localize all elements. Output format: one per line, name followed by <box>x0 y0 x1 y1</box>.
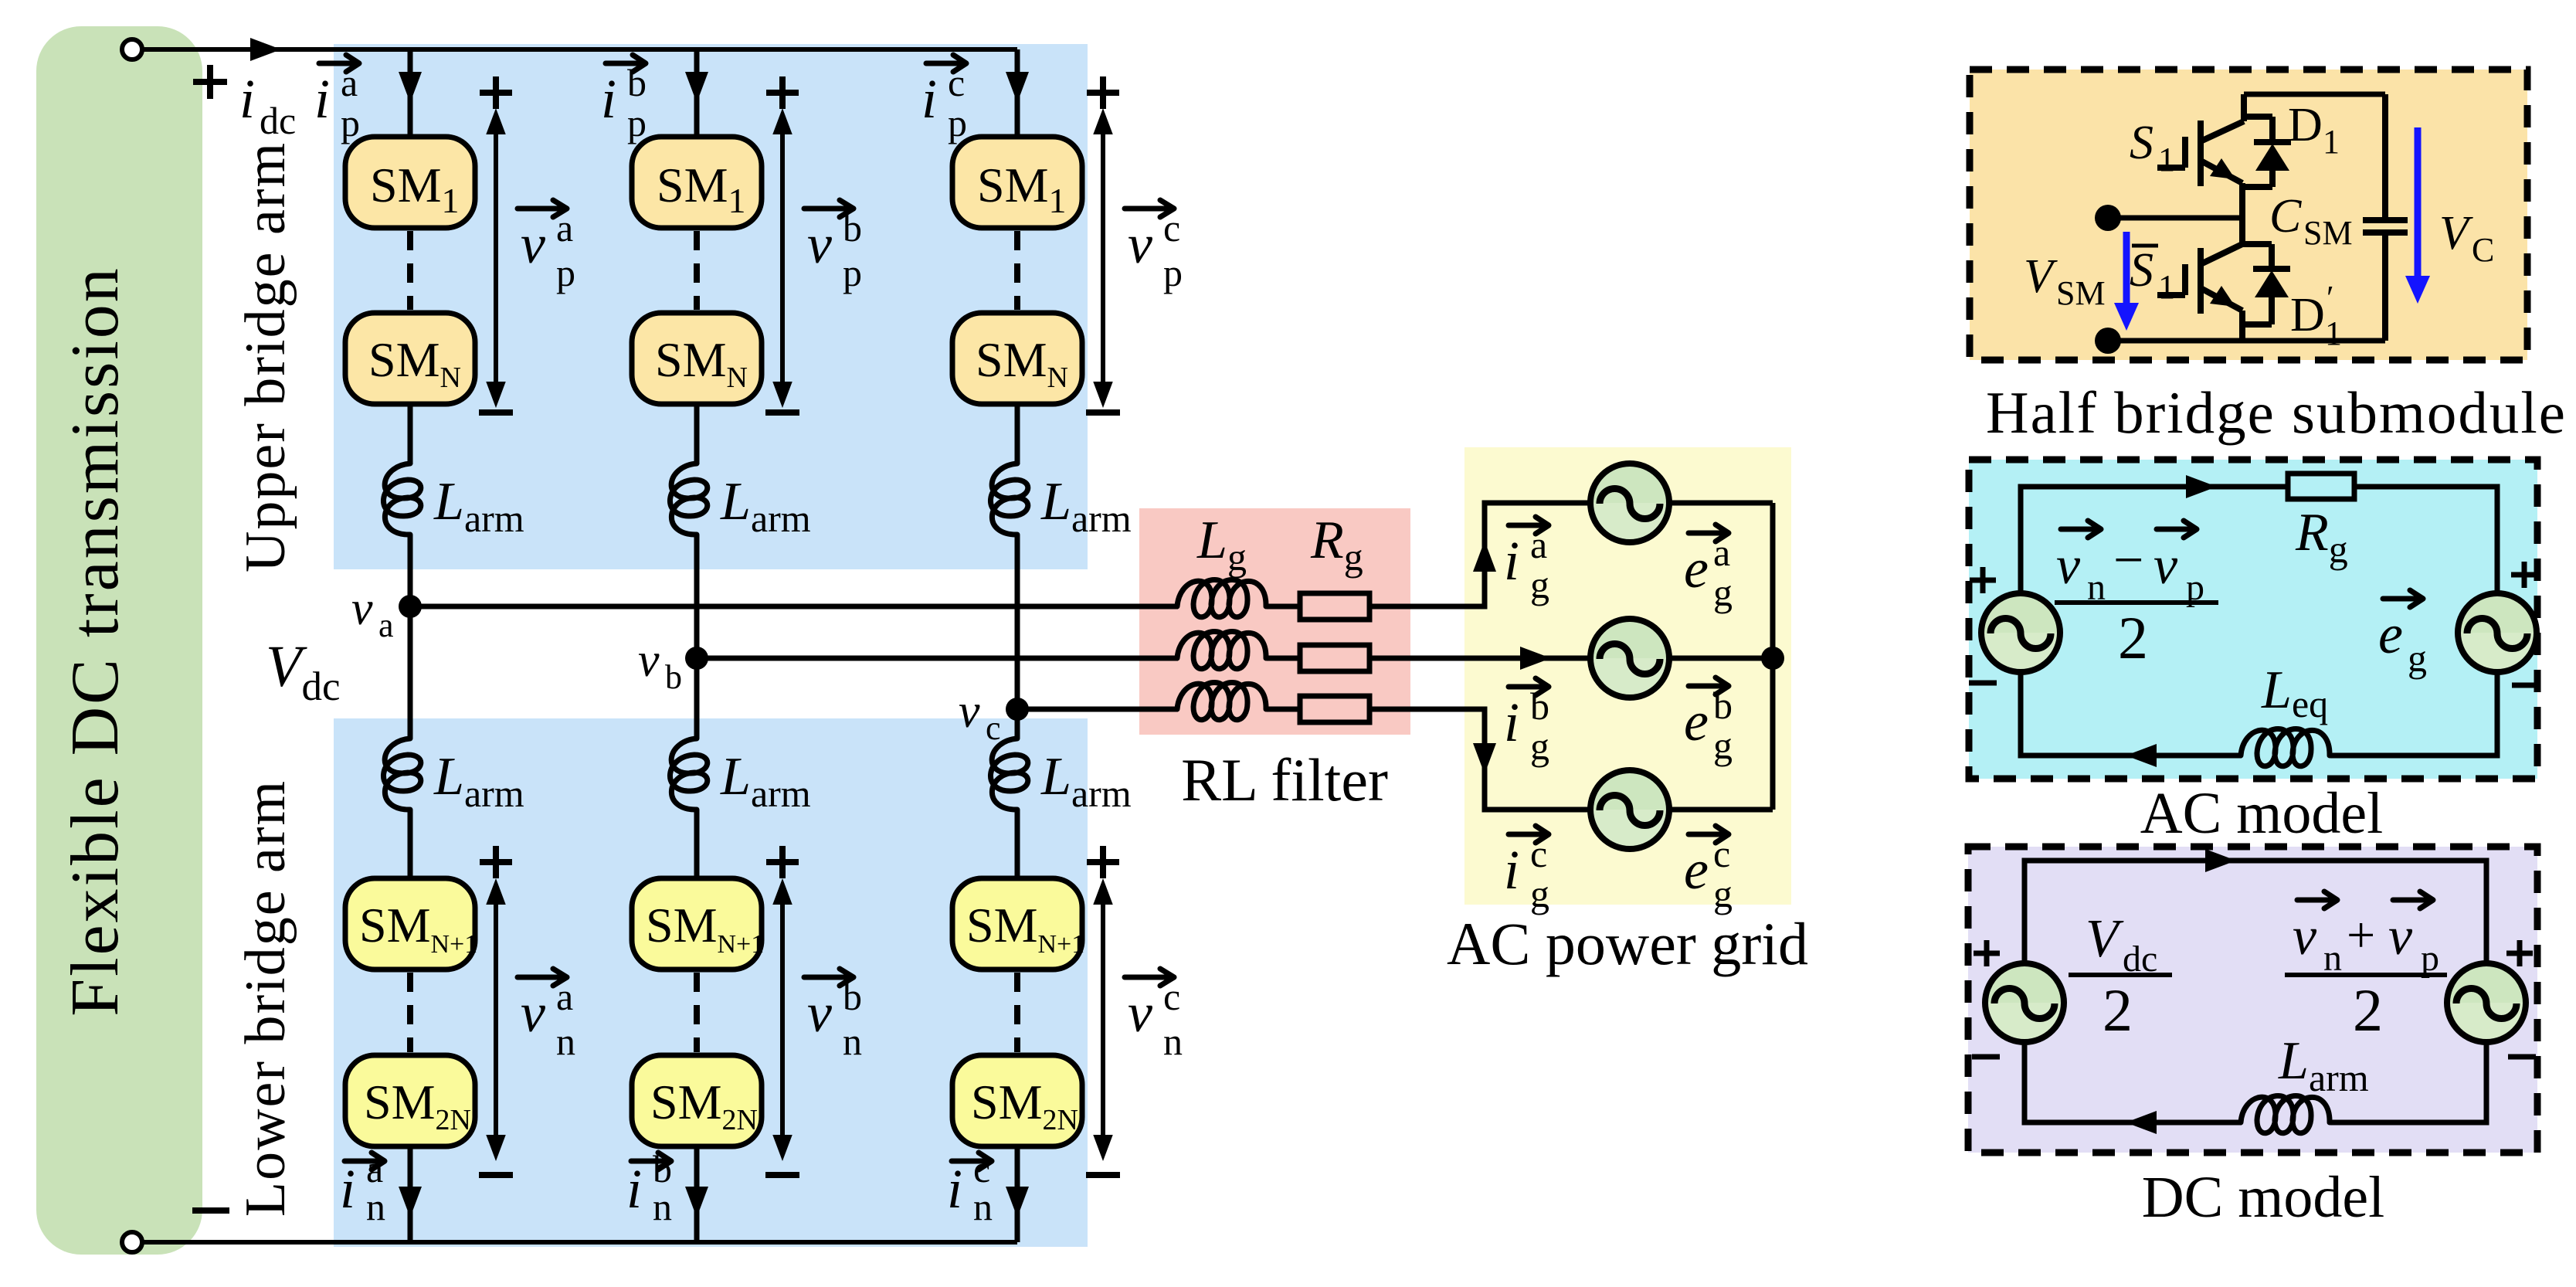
arrow: i_n^a out of lower arm <box>399 1187 422 1217</box>
AC source e_g (AC model) <box>2458 593 2537 672</box>
svg-text:1: 1 <box>2325 314 2342 352</box>
region: AC power grid (yellow) <box>1464 447 1791 905</box>
svg-text:p: p <box>1163 251 1183 294</box>
svg-text:v: v <box>1128 213 1152 275</box>
submodule SMN phase c <box>952 313 1082 404</box>
box: DC model <box>1968 847 2537 1153</box>
svg-text:a: a <box>378 606 394 644</box>
svg-text:v: v <box>959 685 980 738</box>
label: i_p^b <box>601 55 647 144</box>
submodule SMN phase b <box>632 313 762 404</box>
inductor L_g phase b <box>1177 631 1266 668</box>
label: i_p^a <box>314 55 360 144</box>
svg-text:n: n <box>556 1020 575 1063</box>
label: e_g (AC model) <box>2378 590 2427 680</box>
inductor L_g phase a <box>1177 579 1266 616</box>
svg-text:e: e <box>1684 691 1709 752</box>
diode D1prime <box>2242 244 2290 324</box>
label: (vn+vp)/2 fraction <box>2285 891 2447 1044</box>
resistor R_g (AC model) <box>2288 474 2354 499</box>
submodule SM_2N phase a <box>345 1055 475 1146</box>
svg-text:D: D <box>2288 99 2323 151</box>
label: i_dc <box>239 68 296 142</box>
label: V_C <box>2439 207 2494 269</box>
svg-text:p: p <box>843 251 862 294</box>
svg-text:v: v <box>2056 536 2081 596</box>
svg-text:−: − <box>2113 531 2143 590</box>
label: v_n^b <box>804 969 862 1063</box>
svg-text:D: D <box>2290 289 2325 341</box>
inductor L_eq <box>2241 728 2330 766</box>
svg-text:a: a <box>341 61 358 104</box>
label: i_n^a <box>340 1147 385 1228</box>
submodule SM_N+1 phase b <box>632 878 762 969</box>
svg-text:V: V <box>2086 909 2124 969</box>
svg-text:b: b <box>1713 684 1733 727</box>
arrow: i_g^c down <box>1473 743 1496 774</box>
arrow: AC model bottom current <box>2126 744 2157 767</box>
node: v_a <box>399 595 422 618</box>
svg-text:i: i <box>947 1158 962 1220</box>
svg-text:p: p <box>556 251 575 294</box>
region: flexible DC transmission (green panel) <box>36 26 202 1255</box>
arrow: i_n^c out of lower arm <box>1006 1187 1029 1217</box>
label: i_n^b <box>626 1147 672 1228</box>
svg-text:i: i <box>601 68 616 130</box>
svg-text:SM: SM <box>2056 274 2106 312</box>
label: i_n^c <box>947 1147 993 1228</box>
svg-text:e: e <box>1684 538 1709 599</box>
label: - (bottom terminal) <box>192 1207 229 1214</box>
inductor L_arm phase a lower <box>383 739 420 810</box>
svg-text:v: v <box>1128 982 1152 1044</box>
svg-text:n: n <box>973 1185 993 1228</box>
inductor L_arm phase b lower <box>670 739 707 810</box>
svg-text:+: + <box>2347 907 2375 963</box>
wire: dashed SM chain phase b upper <box>694 231 700 310</box>
label: v_p^a <box>518 200 575 294</box>
region: lower bridge arm (blue) <box>334 718 1088 1247</box>
svg-text:b: b <box>627 61 647 104</box>
AC source e_g^c <box>1590 770 1669 849</box>
svg-text:i: i <box>921 68 937 130</box>
svg-text:g: g <box>1713 571 1733 614</box>
svg-text:a: a <box>556 206 573 250</box>
label: e_g^c <box>1684 826 1733 915</box>
svg-text:v: v <box>807 982 832 1044</box>
svg-text:dc: dc <box>260 99 296 142</box>
svg-text:g: g <box>1713 872 1733 915</box>
svg-text:g: g <box>1713 724 1733 767</box>
wire: phase a AC line <box>410 503 1773 606</box>
transistor S1 (upper IGBT) <box>2157 94 2244 218</box>
label: e_g^b <box>1684 677 1733 767</box>
svg-text:g: g <box>1530 872 1549 915</box>
svg-text:2: 2 <box>2103 976 2133 1044</box>
svg-text:n: n <box>1163 1020 1183 1063</box>
svg-text:v: v <box>638 634 660 687</box>
node: v_b <box>685 647 708 670</box>
svg-text:C: C <box>2269 190 2302 243</box>
label: v_p^c <box>1125 200 1183 294</box>
svg-text:b: b <box>665 658 682 696</box>
svg-text:a: a <box>556 975 573 1018</box>
label: i_p^c <box>921 55 967 144</box>
svg-text:g: g <box>1530 725 1549 768</box>
arrow: DC model top current <box>2205 849 2236 872</box>
arrow: DC model bottom current <box>2126 1111 2157 1134</box>
label: i_g^c <box>1504 826 1549 915</box>
arrow: V_C (blue) <box>2415 127 2422 278</box>
svg-text:v: v <box>521 213 545 275</box>
wire: dashed SM chain phase c upper <box>1014 231 1020 310</box>
svg-text:SM: SM <box>2303 214 2353 252</box>
DC source (vn+vp)/2 <box>2447 963 2526 1042</box>
inductor L_arm phase b upper <box>670 464 707 535</box>
svg-text:c: c <box>1530 832 1547 875</box>
label: i_g^b <box>1504 678 1549 768</box>
submodule SM1 phase b <box>632 137 762 228</box>
svg-text:i: i <box>1504 839 1519 901</box>
inductor L_g phase c <box>1177 682 1266 719</box>
arrow: i_p^c into upper arm <box>1006 72 1029 103</box>
svg-text:i: i <box>239 68 255 130</box>
svg-text:i: i <box>1504 530 1519 592</box>
svg-text:2: 2 <box>2118 604 2148 671</box>
svg-text:p: p <box>948 101 967 144</box>
svg-text:V: V <box>2024 250 2058 303</box>
region: upper bridge arm (blue) <box>334 44 1088 569</box>
wire: dashed SM chain phase a lower <box>407 973 413 1052</box>
svg-text:b: b <box>843 206 862 250</box>
label: (vn-vp)/2 fraction <box>2055 521 2218 671</box>
svg-text:c: c <box>948 61 965 104</box>
svg-text:a: a <box>366 1147 383 1190</box>
label: S1 <box>2130 117 2175 178</box>
transistor S1bar (lower IGBT) <box>2157 218 2242 341</box>
svg-text:Vdc: Vdc <box>266 634 340 709</box>
wire: SM middle rail <box>2108 216 2242 221</box>
submodule SM_2N phase b <box>632 1055 762 1146</box>
arrow: i_g^a up <box>1473 541 1496 572</box>
svg-text:S: S <box>2130 117 2153 169</box>
AC source e_g^b <box>1590 619 1669 698</box>
wire: dashed SM chain phase b lower <box>694 973 700 1052</box>
wire: positive DC bus (top) <box>142 47 1017 52</box>
AC source e_g^a <box>1590 464 1669 542</box>
label: i_g^a <box>1504 517 1549 606</box>
wire: grid right bus <box>1770 503 1776 810</box>
label: D1 <box>2288 99 2340 161</box>
arrow: V_SM (blue) <box>2123 232 2130 305</box>
node: grid neutral <box>1761 647 1784 670</box>
svg-text:c: c <box>1163 975 1180 1018</box>
svg-text:a: a <box>1530 523 1547 566</box>
box: half bridge submodule <box>1970 70 2527 360</box>
submodule SM1 phase a <box>345 137 475 228</box>
svg-text:v: v <box>2153 536 2178 596</box>
svg-text:AC power grid: AC power grid <box>1447 910 1808 977</box>
svg-text:v: v <box>2293 907 2317 966</box>
svg-text:1: 1 <box>2158 141 2175 178</box>
node: v_c <box>1006 698 1029 721</box>
wire: AC model bottom <box>2021 672 2497 756</box>
measurement arrow v_p^a <box>494 114 498 402</box>
label: Vdc/2 fraction <box>2069 909 2172 1044</box>
svg-text:Upper bridge arm: Upper bridge arm <box>234 141 297 572</box>
inductor L_arm (DC model) <box>2241 1095 2330 1132</box>
wire: AC model top <box>2021 487 2497 593</box>
svg-text:S: S <box>2130 244 2153 297</box>
terminal: DC- <box>122 1232 142 1252</box>
svg-text:Half bridge submodule: Half bridge submodule <box>1986 379 2567 446</box>
arrow: i_p^b into upper arm <box>685 72 708 103</box>
svg-text:i: i <box>626 1158 642 1220</box>
svg-text:n: n <box>653 1185 672 1228</box>
box: AC model <box>1969 460 2537 779</box>
resistor R_g phase c <box>1300 696 1369 722</box>
wire: phase c AC line <box>1017 709 1773 810</box>
svg-text:p: p <box>627 101 647 144</box>
label: V_SM <box>2024 250 2106 312</box>
svg-text:1: 1 <box>2323 123 2340 161</box>
terminal: DC+ <box>122 39 142 59</box>
svg-text:c: c <box>1713 832 1730 875</box>
svg-text:2: 2 <box>2353 976 2383 1044</box>
svg-text:Lower bridge arm: Lower bridge arm <box>234 779 297 1217</box>
wire: SM top rail <box>2244 92 2385 97</box>
AC source (vn-vp)/2 <box>1981 593 2060 672</box>
svg-text:e: e <box>2378 603 2403 665</box>
inductor L_arm phase c lower <box>990 739 1027 810</box>
wire: phase a leg <box>408 49 413 1242</box>
label: C_SM <box>2269 190 2353 252</box>
svg-text:i: i <box>314 68 330 130</box>
label: + (top terminal) <box>193 65 227 99</box>
arrow: i_n^b out of lower arm <box>685 1187 708 1217</box>
measurement arrow v_n^b <box>780 885 785 1155</box>
diode D1 <box>2244 117 2291 187</box>
svg-text:′: ′ <box>2327 279 2334 317</box>
label: v_p^b <box>804 200 862 294</box>
wire: dashed SM chain phase a upper <box>407 231 413 310</box>
terminal: SM input bottom <box>2095 328 2121 354</box>
svg-text:b: b <box>843 975 862 1018</box>
svg-text:v: v <box>521 982 545 1044</box>
svg-text:i: i <box>1504 691 1519 753</box>
measurement arrow v_n^c <box>1101 885 1105 1155</box>
svg-text:v: v <box>351 582 373 635</box>
label: D1prime <box>2290 279 2342 352</box>
label: v_n^a <box>518 969 575 1063</box>
capacitor C_SM <box>2363 94 2408 341</box>
arrow: AC model top current <box>2186 475 2217 498</box>
wire: DC model top <box>2024 861 2486 963</box>
measurement arrow v_p^c <box>1101 114 1105 402</box>
svg-text:b: b <box>1530 684 1549 728</box>
resistor R_g phase a <box>1300 593 1369 620</box>
svg-text:RL filter: RL filter <box>1181 746 1388 813</box>
submodule SM_2N phase c <box>952 1055 1082 1146</box>
svg-text:g: g <box>1530 563 1549 606</box>
svg-text:n: n <box>843 1020 862 1063</box>
svg-text:n: n <box>366 1185 385 1228</box>
wire: phase b leg <box>694 49 700 1242</box>
wire: phase c leg <box>1015 49 1020 1242</box>
inductor L_arm phase a upper <box>383 464 420 535</box>
region: RL filter (pink) <box>1139 508 1410 735</box>
submodule SM1 phase c <box>952 137 1082 228</box>
svg-text:AC model: AC model <box>2140 781 2384 846</box>
wire: phase b AC line <box>697 656 1773 661</box>
wire: SM bottom rail <box>2108 338 2385 344</box>
arrow: i_g^b right <box>1520 647 1551 670</box>
svg-text:a: a <box>1713 531 1730 574</box>
svg-text:g: g <box>2408 637 2427 680</box>
svg-text:v: v <box>2388 907 2413 966</box>
svg-text:c: c <box>973 1147 990 1190</box>
arrow: i_dc direction on top bus <box>250 38 281 61</box>
svg-text:Flexible DC transmission: Flexible DC transmission <box>58 266 133 1017</box>
svg-text:C: C <box>2472 231 2494 269</box>
measurement arrow v_p^b <box>780 114 785 402</box>
svg-text:1: 1 <box>2158 268 2175 306</box>
svg-text:i: i <box>340 1158 355 1220</box>
svg-text:e: e <box>1684 839 1709 901</box>
measurement arrow v_n^a <box>494 885 498 1155</box>
wire: dashed SM chain phase c lower <box>1014 973 1020 1052</box>
svg-text:v: v <box>807 213 832 275</box>
svg-text:DC model: DC model <box>2142 1165 2385 1230</box>
svg-text:b: b <box>653 1147 672 1190</box>
svg-text:p: p <box>341 101 360 144</box>
submodule SMN phase a <box>345 313 475 404</box>
svg-text:c: c <box>986 709 1001 747</box>
submodule SM_N+1 phase c <box>952 878 1082 969</box>
terminal: SM input top <box>2095 205 2121 231</box>
label: v_n^c <box>1125 969 1183 1063</box>
label: e_g^a <box>1684 525 1733 614</box>
svg-text:V: V <box>2439 207 2473 260</box>
label: S1bar <box>2130 244 2175 306</box>
resistor R_g phase b <box>1300 645 1369 671</box>
wire: DC model bottom <box>2024 1043 2486 1122</box>
wire: negative DC bus (bottom) <box>142 1240 1017 1245</box>
arrow: i_p^a into upper arm <box>399 72 422 103</box>
svg-text:c: c <box>1163 206 1180 250</box>
DC source Vdc/2 <box>1985 963 2064 1042</box>
submodule SM_N+1 phase a <box>345 878 475 969</box>
inductor L_arm phase c upper <box>990 464 1027 535</box>
